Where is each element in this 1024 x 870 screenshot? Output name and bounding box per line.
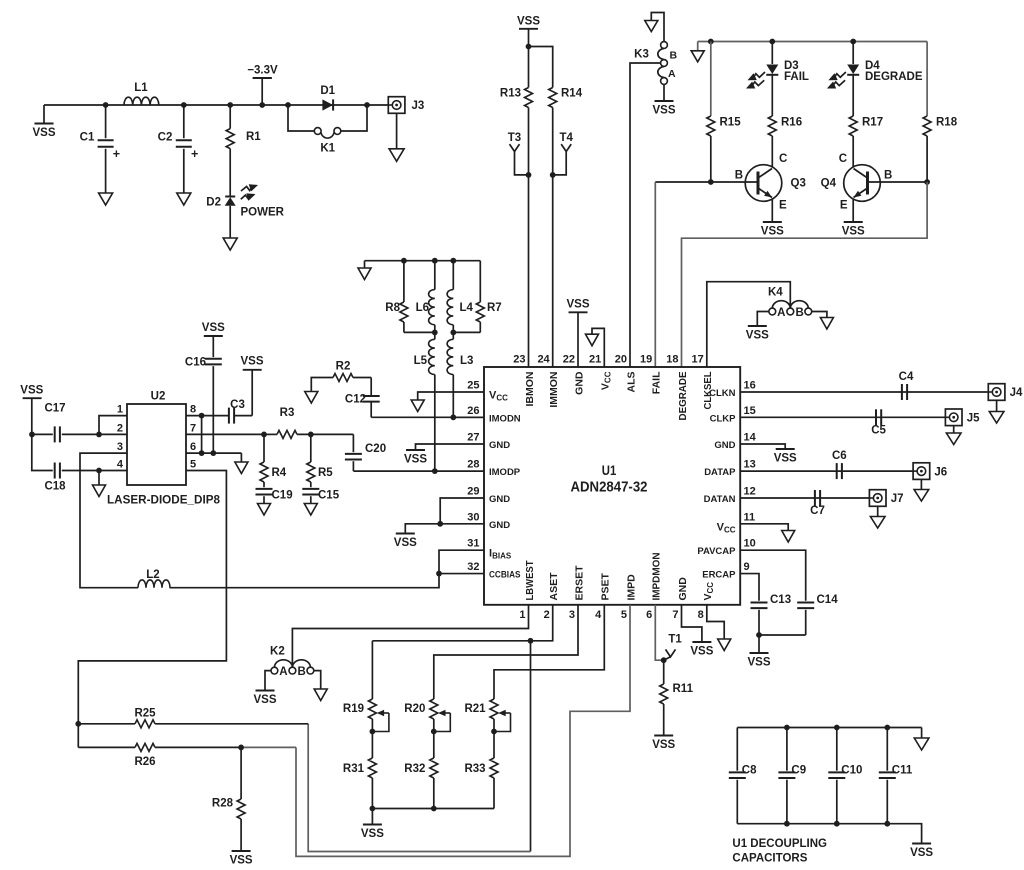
svg-text:LBWEST: LBWEST — [524, 560, 536, 601]
node pin6 junction b — [210, 450, 216, 456]
svg-text:VSS: VSS — [747, 657, 770, 669]
wire — [682, 605, 702, 642]
op-amp U2 LASER-DIODE_DIP8 — [127, 404, 186, 485]
inductor L3 — [452, 332, 454, 339]
capacitor C5 — [875, 409, 877, 425]
svg-text:C16: C16 — [185, 357, 206, 369]
inductor L5 — [434, 332, 436, 339]
svg-text:R31: R31 — [343, 763, 365, 775]
connector J3 — [388, 97, 405, 114]
svg-text:VSS: VSS — [652, 105, 675, 117]
node R19 wiper — [370, 729, 376, 735]
svg-text:VSS: VSS — [842, 226, 865, 238]
node bottom rail C9 — [784, 821, 790, 827]
resistor R15 — [710, 42, 712, 117]
node -3.3V junction — [259, 102, 265, 108]
svg-text:R11: R11 — [673, 683, 694, 695]
capacitor C16 — [212, 336, 214, 357]
svg-text:IBMON: IBMON — [524, 372, 536, 407]
capacitor C7 — [814, 490, 816, 506]
svg-text:R14: R14 — [561, 88, 583, 100]
node L6-L5 — [432, 330, 438, 336]
svg-text:GND: GND — [714, 440, 735, 451]
power VSS under R11 — [654, 735, 673, 737]
wire — [439, 550, 484, 573]
svg-text:B: B — [884, 170, 892, 182]
svg-text:15: 15 — [744, 405, 756, 417]
ground arrow pin 21 — [586, 334, 599, 346]
inductor L2 — [138, 580, 170, 588]
svg-text:C15: C15 — [318, 490, 340, 502]
resistor R1 — [229, 105, 231, 129]
resistor R11 — [663, 660, 665, 684]
svg-text:CLKN: CLKN — [709, 388, 736, 399]
connector J6 — [913, 463, 930, 480]
svg-text:D1: D1 — [320, 85, 335, 97]
svg-text:C11: C11 — [892, 765, 913, 777]
node rail L4 — [450, 258, 456, 264]
wire K3 to VSS — [663, 84, 665, 100]
resistor R32 — [430, 758, 438, 778]
svg-text:27: 27 — [467, 432, 479, 444]
wire — [630, 63, 661, 367]
capacitor C12 — [370, 378, 372, 396]
svg-text:5: 5 — [190, 459, 196, 471]
wire IMODP pin 28 — [353, 470, 484, 472]
relay jumper K4 — [769, 308, 776, 315]
potentiometer R19 — [368, 699, 376, 719]
power VSS pin 27 — [406, 449, 425, 451]
transistor Q4 — [852, 165, 854, 169]
ground under C19 — [258, 504, 271, 516]
node top rail C10 — [834, 725, 840, 731]
svg-text:IMPDMON: IMPDMON — [651, 553, 663, 601]
wire U2 pin 2 — [99, 433, 127, 435]
svg-text:VSS: VSS — [566, 299, 589, 311]
wire — [740, 574, 759, 601]
svg-text:VSS: VSS — [20, 385, 43, 397]
ground arrow at U2 pin 6 — [240, 453, 242, 462]
svg-text:24: 24 — [537, 354, 550, 366]
svg-text:R32: R32 — [404, 763, 425, 775]
node L4-L3 — [450, 330, 456, 336]
svg-text:22: 22 — [563, 354, 575, 366]
svg-text:17: 17 — [692, 354, 704, 366]
svg-text:K1: K1 — [320, 143, 335, 155]
svg-text:R21: R21 — [464, 703, 486, 715]
svg-text:GND: GND — [489, 494, 510, 505]
transistor Q3 — [771, 165, 773, 169]
svg-text:CAPACITORS: CAPACITORS — [732, 853, 807, 865]
node C17-C18 — [29, 432, 35, 438]
svg-text:4: 4 — [595, 609, 602, 621]
svg-text:T3: T3 — [508, 132, 521, 144]
svg-text:32: 32 — [467, 561, 479, 573]
wire — [296, 605, 630, 857]
svg-text:E: E — [840, 200, 848, 212]
svg-text:R3: R3 — [280, 407, 295, 419]
svg-text:CLKP: CLKP — [710, 413, 737, 424]
svg-text:C17: C17 — [44, 403, 65, 415]
node C2 junction — [181, 102, 187, 108]
svg-text:U1 DECOUPLING: U1 DECOUPLING — [732, 838, 827, 850]
diode D1 — [322, 99, 333, 110]
resistor R33 — [490, 758, 498, 778]
svg-text:6: 6 — [190, 441, 196, 453]
svg-text:C1: C1 — [80, 132, 95, 144]
node top rail C9 — [784, 725, 790, 731]
resistor R16 — [771, 75, 773, 116]
svg-text:R4: R4 — [272, 467, 287, 479]
svg-text:VSS: VSS — [761, 226, 784, 238]
svg-text:28: 28 — [467, 459, 479, 471]
wire — [682, 182, 928, 367]
svg-text:18: 18 — [666, 354, 678, 366]
capacitor C2 — [183, 105, 185, 138]
wire — [737, 824, 921, 843]
wire Q3 base — [655, 181, 758, 183]
node bottom rail C11 — [884, 821, 890, 827]
wire C13 to VSS — [758, 635, 760, 653]
svg-text:R16: R16 — [781, 117, 802, 129]
node pin24 junction — [550, 172, 556, 178]
node rail R15 — [708, 39, 714, 45]
svg-text:IMPD: IMPD — [625, 574, 637, 601]
node R21 wiper — [491, 729, 497, 735]
svg-text:FAIL: FAIL — [784, 71, 809, 83]
svg-text:ADN2847-32: ADN2847-32 — [571, 479, 648, 496]
resistor R28 — [240, 747, 242, 799]
wire — [812, 312, 827, 318]
node L3 IMODN — [450, 414, 456, 420]
capacitor C10 — [836, 728, 838, 771]
node pins 31-32 — [436, 571, 442, 577]
svg-text:C8: C8 — [742, 765, 757, 777]
wire pot bottom bar — [372, 808, 494, 810]
ground arrow decoupling — [921, 728, 923, 739]
ground arrow pin 25 — [411, 400, 424, 412]
capacitor C20 — [352, 434, 354, 452]
node R28 top — [238, 745, 244, 751]
svg-text:K2: K2 — [270, 646, 285, 658]
relay jumper K2 — [271, 667, 278, 674]
node U2 pin 4 — [96, 468, 102, 474]
ground arrow above K3 — [645, 21, 658, 32]
svg-text:CCBIAS: CCBIAS — [489, 570, 521, 581]
wire — [32, 434, 53, 470]
svg-text:11: 11 — [744, 511, 756, 523]
svg-text:R19: R19 — [343, 703, 364, 715]
svg-text:L4: L4 — [460, 302, 474, 314]
wire — [416, 444, 485, 450]
capacitor C1 — [105, 105, 107, 138]
ground under C15 — [304, 504, 317, 516]
svg-text:B: B — [298, 666, 306, 678]
wire L4-R7 bottom — [453, 331, 480, 333]
power VSS under C13 — [750, 652, 769, 654]
wire U2 pin 7 / R3 — [186, 433, 264, 435]
svg-text:8: 8 — [698, 609, 704, 621]
ground arrow pin 8 — [718, 639, 731, 651]
wire — [651, 13, 664, 42]
connector J5 — [945, 409, 962, 426]
node K1 right junction — [364, 102, 370, 108]
node L5 IMODP — [432, 468, 438, 474]
wire — [341, 105, 367, 131]
wire C12 to IMODN — [371, 416, 484, 418]
wire — [265, 671, 271, 690]
svg-text:2: 2 — [117, 422, 123, 434]
svg-text:C5: C5 — [871, 425, 886, 437]
resistor R8 — [403, 261, 405, 302]
svg-text:ALS: ALS — [625, 372, 637, 393]
wire — [311, 378, 333, 392]
resistor R17 — [852, 75, 854, 116]
svg-text:30: 30 — [467, 511, 479, 523]
wire J5 ground — [953, 426, 955, 433]
svg-text:L3: L3 — [460, 355, 473, 367]
svg-text:VSS: VSS — [240, 356, 263, 368]
svg-text:C18: C18 — [44, 481, 66, 493]
svg-text:VSS: VSS — [774, 453, 797, 465]
svg-text:+: + — [191, 147, 198, 161]
svg-text:J3: J3 — [412, 100, 425, 112]
svg-text:R5: R5 — [318, 467, 333, 479]
svg-text:DEGRADE: DEGRADE — [865, 71, 923, 83]
wire — [288, 105, 314, 131]
power -3.3V supply — [253, 77, 272, 79]
svg-text:+: + — [113, 147, 120, 161]
svg-text:R8: R8 — [385, 302, 400, 314]
wire R8-L6 bottom — [404, 331, 435, 333]
ground arrow under R2 — [305, 392, 318, 404]
wire — [531, 605, 553, 641]
node K1 left junction — [285, 102, 291, 108]
svg-text:14: 14 — [744, 432, 757, 444]
svg-text:6: 6 — [646, 609, 652, 621]
node C13 VSS — [756, 632, 762, 638]
wire — [80, 453, 138, 588]
ground under J5 — [946, 433, 961, 445]
resistor R5 — [310, 434, 312, 462]
ground arrow under U2 pin 4 — [98, 471, 100, 486]
svg-text:R1: R1 — [246, 131, 261, 143]
svg-text:VSS: VSS — [253, 694, 276, 706]
svg-text:−3.3V: −3.3V — [247, 65, 278, 77]
svg-text:T1: T1 — [668, 634, 682, 646]
wire U2 pin 8 / C3 — [186, 415, 229, 417]
ground arrow at K2 — [314, 689, 327, 701]
svg-text:J6: J6 — [934, 466, 947, 478]
wire CLKN pin 16 — [740, 391, 988, 393]
ground under J7 — [870, 517, 885, 529]
svg-text:IMODP: IMODP — [489, 467, 521, 478]
ground arrow pin 11 — [782, 531, 795, 543]
svg-text:B: B — [795, 307, 803, 319]
svg-text:IMODN: IMODN — [489, 413, 521, 424]
inductor L4 — [452, 261, 454, 290]
connector J4 — [988, 384, 1005, 401]
svg-text:R28: R28 — [212, 798, 234, 810]
capacitor C3 — [228, 408, 230, 424]
wire J3 to ground — [396, 113, 398, 148]
resistor R14 — [549, 88, 557, 108]
svg-text:J4: J4 — [1010, 387, 1023, 399]
svg-text:VSS: VSS — [690, 646, 713, 658]
node R3 right — [308, 432, 314, 438]
resistor R31 — [368, 758, 376, 778]
power VSS under Q4 — [844, 221, 863, 223]
svg-text:5: 5 — [621, 609, 627, 621]
node R3 left — [261, 432, 267, 438]
node Q4 base R18 — [924, 179, 930, 185]
power VSS (input) — [43, 105, 45, 123]
wire main -3.3V rail — [44, 104, 388, 106]
wire — [592, 328, 604, 367]
ground under D2 — [223, 238, 237, 250]
node bar R32 — [431, 806, 437, 812]
svg-text:10: 10 — [744, 538, 756, 550]
svg-text:C20: C20 — [365, 443, 386, 455]
capacitor C19 — [256, 488, 273, 490]
svg-text:26: 26 — [467, 405, 479, 417]
node R13/R14 top junction — [526, 44, 532, 50]
svg-text:3: 3 — [569, 609, 575, 621]
svg-text:7: 7 — [672, 609, 678, 621]
svg-text:J7: J7 — [891, 493, 904, 505]
svg-text:DEGRADE: DEGRADE — [677, 372, 689, 421]
wire — [418, 392, 484, 400]
node Q3 base R15 — [708, 179, 714, 185]
svg-text:VSS: VSS — [746, 330, 769, 342]
svg-text:1: 1 — [519, 609, 525, 621]
wire — [707, 282, 791, 367]
wire decoupling top rail — [737, 727, 921, 729]
svg-text:LASER-DIODE_DIP8: LASER-DIODE_DIP8 — [107, 493, 220, 507]
wire Q4 base — [868, 181, 928, 183]
svg-text:E: E — [779, 200, 787, 212]
potentiometer R21 — [490, 699, 498, 719]
svg-text:C10: C10 — [841, 765, 862, 777]
wire CLKP pin 15 — [740, 416, 945, 418]
svg-text:ASET: ASET — [548, 572, 560, 601]
ground arrow at rail — [697, 42, 699, 51]
node bar R31 — [370, 806, 376, 812]
svg-text:FAIL: FAIL — [651, 371, 663, 394]
svg-text:R33: R33 — [464, 763, 485, 775]
node R20 wiper — [431, 729, 437, 735]
wire — [440, 498, 484, 524]
svg-text:21: 21 — [589, 354, 601, 366]
node R25 R26 left — [75, 721, 81, 727]
svg-text:GND: GND — [677, 577, 689, 601]
svg-text:A: A — [668, 68, 676, 80]
svg-text:C9: C9 — [791, 765, 806, 777]
node R1 junction — [227, 102, 233, 108]
svg-text:A: A — [777, 307, 785, 319]
svg-text:19: 19 — [640, 354, 652, 366]
wire — [99, 416, 127, 435]
wire IMODN pin 26 — [453, 416, 484, 418]
svg-text:ERCAP: ERCAP — [702, 570, 736, 581]
svg-text:23: 23 — [513, 354, 525, 366]
svg-text:L6: L6 — [416, 302, 429, 314]
svg-text:VSS: VSS — [404, 454, 427, 466]
node pin6 junction a — [199, 450, 205, 456]
resistor R13 — [528, 47, 530, 88]
connector J7 — [869, 490, 886, 507]
wire — [170, 574, 440, 588]
svg-text:R26: R26 — [134, 756, 155, 768]
capacitor C8 — [736, 728, 738, 771]
svg-text:12: 12 — [744, 486, 756, 498]
ground under J6 — [914, 490, 929, 502]
svg-text:C4: C4 — [899, 371, 914, 383]
wire U2 pin 6 — [186, 452, 241, 454]
svg-text:C: C — [839, 153, 847, 165]
LED D2 POWER — [225, 196, 235, 198]
svg-text:13: 13 — [744, 459, 756, 471]
svg-text:DATAP: DATAP — [704, 467, 736, 478]
svg-text:R20: R20 — [404, 703, 425, 715]
capacitor C17 — [62, 433, 99, 435]
power VSS under K2 — [256, 690, 275, 692]
wire — [655, 605, 663, 660]
svg-text:R15: R15 — [720, 117, 742, 129]
svg-text:C13: C13 — [770, 594, 791, 606]
svg-text:VSS: VSS — [230, 855, 253, 867]
inductor L6 — [434, 261, 436, 290]
svg-text:K3: K3 — [634, 49, 649, 61]
LED D3 FAIL — [771, 42, 773, 65]
svg-text:U1: U1 — [602, 463, 617, 478]
svg-text:R7: R7 — [487, 302, 502, 314]
svg-text:R13: R13 — [500, 88, 521, 100]
wire — [405, 524, 484, 533]
wire DATAN pin 12 — [740, 497, 869, 499]
svg-text:ERSET: ERSET — [573, 565, 585, 601]
resistor R25 — [78, 723, 135, 725]
svg-text:L5: L5 — [414, 355, 428, 367]
svg-text:J5: J5 — [967, 413, 980, 425]
wire FAIL pin 19 — [654, 182, 656, 367]
relay K3 contacts — [661, 42, 668, 49]
inductor L1 — [124, 97, 159, 105]
ground arrow at K4 — [820, 318, 833, 330]
wire CCBIAS pin 32 — [439, 573, 484, 575]
node C1 junction — [103, 102, 109, 108]
ground under J4 — [989, 412, 1004, 424]
svg-text:VSS: VSS — [202, 322, 225, 334]
svg-text:8: 8 — [190, 404, 196, 416]
svg-text:1: 1 — [117, 404, 123, 416]
wire R26 to pin5 path — [241, 746, 296, 748]
node rail D4 — [850, 39, 856, 45]
power VSS pin 7 — [692, 641, 711, 643]
wire indicator rail — [698, 41, 927, 43]
power VSS under K4 — [748, 325, 767, 327]
svg-text:D2: D2 — [206, 197, 221, 209]
svg-text:L2: L2 — [146, 569, 159, 581]
svg-text:VSS: VSS — [652, 739, 675, 751]
node rail R8 — [401, 258, 407, 264]
node U2 pin8 junction — [199, 413, 205, 419]
node ASET junction — [528, 638, 534, 644]
wire C13-C14 bottom — [759, 634, 806, 636]
wire — [494, 605, 604, 699]
resistor R26 — [78, 746, 135, 748]
svg-text:IMMON: IMMON — [548, 372, 560, 408]
